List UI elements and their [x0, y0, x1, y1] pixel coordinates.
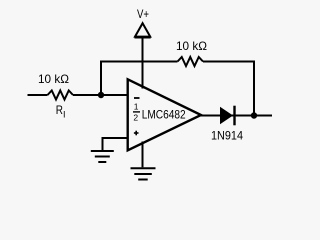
V+ supply triangle	[135, 23, 150, 36]
wire feedback vertical left	[100, 62, 102, 96]
wire V- stem	[142, 142, 144, 168]
wire output	[201, 115, 273, 117]
op-amp minus sign	[134, 97, 140, 99]
svg-text:I: I	[63, 110, 66, 120]
wire V+ stem to op-amp	[142, 38, 144, 89]
resistor RI	[48, 91, 74, 100]
op-amp U1 LMC6482	[128, 79, 201, 150]
resistor 10k feedback	[178, 57, 204, 66]
wire feedback top right segment	[203, 61, 254, 63]
ground (noninverting input)	[91, 150, 114, 152]
svg-text:V+: V+	[137, 7, 149, 21]
wire input left segment	[28, 94, 48, 96]
diode D1 1N914	[220, 107, 233, 125]
node junction at inverting input	[98, 92, 104, 98]
wire feedback right vertical	[253, 61, 255, 116]
node junction at output	[251, 112, 257, 118]
wire feedback top left segment	[100, 61, 178, 63]
svg-text:1N914: 1N914	[211, 129, 243, 143]
svg-text:1: 1	[134, 102, 139, 112]
wire noninverting input	[103, 138, 128, 150]
svg-text:10 kΩ: 10 kΩ	[38, 72, 69, 86]
svg-text:10 kΩ: 10 kΩ	[176, 39, 207, 53]
ground (op-amp V-)	[131, 167, 156, 169]
svg-text:LMC6482: LMC6482	[142, 107, 186, 121]
wire input to inverting node	[73, 94, 128, 96]
svg-text:2: 2	[133, 113, 138, 123]
op-amp plus sign	[134, 132, 139, 134]
